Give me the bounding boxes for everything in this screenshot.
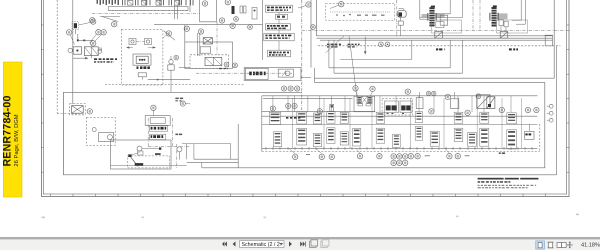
node circle A7: [91, 41, 96, 46]
bank wire drops: [272, 96, 274, 112]
view mode facing icon: [557, 243, 562, 248]
bank upper spool SU4: [327, 112, 335, 123]
dash-dot axis y30: [302, 30, 569, 32]
gauge circle G3: [177, 147, 182, 152]
nav first-page button: [222, 241, 227, 246]
wire from G2: [142, 148, 159, 150]
valve V9 hatch: [249, 72, 252, 76]
tiny label T4b: [175, 98, 178, 100]
bank lower spool SL9: [415, 127, 422, 141]
node circle A10: [233, 63, 238, 68]
callout circles row B: [281, 86, 286, 91]
manifold M1 outline box: [109, 6, 189, 10]
valve stack U1 box 5: [268, 50, 291, 57]
valve stack U1 box 3: [266, 24, 291, 30]
node circle A13: [306, 2, 311, 7]
bank lower spool SL8: [393, 134, 401, 147]
note text block line4: [478, 187, 481, 188]
wire bus H y92: [63, 91, 301, 93]
page inner border right: [566, 0, 568, 195]
dashed enclosure E1: [121, 29, 162, 85]
cylinder CY2: [400, 101, 412, 113]
solid enclosure around E2: [185, 42, 233, 68]
bank upper spool SU2: [297, 112, 307, 124]
nested box bottom y73: [334, 72, 462, 74]
node circle A29: [429, 109, 434, 114]
ports under CV1 CV2: [358, 104, 363, 106]
bank upper spool SU5: [340, 112, 348, 123]
bank outer box top: [262, 95, 538, 97]
node circle A33: [499, 107, 504, 112]
label text row T3: [137, 66, 139, 69]
tank symbol diagonal: [138, 151, 143, 155]
node circle A3: [112, 22, 117, 27]
valve V10: [72, 106, 84, 114]
wire H y67.6: [179, 67, 190, 69]
page gap speck 5: [576, 214, 579, 216]
valve stack connector stems: [278, 12, 280, 14]
dashed enclosure E2: [190, 55, 229, 69]
wire bus top: [154, 24, 263, 26]
page outer border left: [41, 0, 43, 197]
components K6 right of MB: [499, 20, 503, 26]
bank outer box left: [261, 96, 263, 152]
staircase connector: [313, 68, 315, 83]
wire vertical x230: [230, 144, 232, 160]
node circle A40: [180, 101, 185, 106]
bank lower spool SL14: [507, 130, 517, 149]
bank bus H y116: [262, 115, 538, 117]
nested corner lines group2: [512, 19, 521, 21]
valve stack U1 box 1: [266, 5, 293, 12]
bank lower spool SL4: [327, 128, 335, 144]
gauge circle G2: [137, 146, 142, 151]
relief valve RV1 on pipe: [435, 32, 443, 39]
node circle A16b: [166, 31, 171, 36]
motor MA side box: [436, 22, 444, 28]
bank lower spool SL6: [353, 128, 361, 146]
node circle A8: [174, 55, 179, 60]
bank upper spool SU7: [415, 112, 422, 123]
pilot circle on V3: [98, 49, 102, 53]
wire dashed H y84: [105, 84, 244, 86]
port label mark 1: [436, 48, 438, 50]
gauge circle G1: [92, 128, 96, 132]
wire bus H1: [148, 79, 190, 81]
yellow bookmark strip: [3, 62, 22, 197]
wires to motor MA: [420, 16, 430, 18]
page gap speck 1: [42, 217, 46, 219]
dashed inner box E5: [127, 156, 169, 168]
bank bus H y111: [262, 110, 375, 112]
pipe end block: [545, 35, 552, 46]
wire from manifold: [174, 5, 176, 19]
valve V14: [487, 97, 495, 109]
bank dashed bottom: [262, 150, 540, 152]
group outline around MA base: [432, 20, 462, 33]
svg-text:RENR7784-00: RENR7784-00: [2, 95, 14, 166]
tick row inside bank: [286, 117, 288, 119]
dashed cylinder box E7: [382, 98, 412, 115]
relief valve RV2 on pipe: [500, 32, 508, 39]
wire bus H y98: [263, 97, 352, 99]
dashed enclosure E3: [70, 104, 86, 115]
dashed enclosure E4: [87, 117, 116, 145]
wire vertical x238: [237, 124, 239, 168]
diagonal wire: [164, 31, 175, 40]
status bar background: [0, 238, 600, 250]
node circle A18: [219, 18, 224, 23]
node circle A36: [270, 106, 275, 111]
valve assembly box B5: [145, 116, 170, 126]
check valve CV2 hatched: [368, 96, 373, 104]
motor MB dark: [492, 7, 497, 27]
valve V9 body: [245, 68, 268, 79]
bank lower spool SL3: [313, 133, 321, 146]
valve V11: [416, 98, 423, 109]
callout dash marks: [425, 155, 430, 157]
dashed boundary wire corner: [57, 113, 79, 115]
margin circles stack: [549, 104, 553, 108]
bank lower spool SL7: [376, 128, 384, 143]
bank upper spool SU10: [507, 113, 517, 124]
node circle A35: [534, 107, 539, 112]
view mode single-page selected: [536, 241, 545, 249]
nested box risers: [328, 40, 330, 68]
page outer border right: [568, 0, 570, 197]
bank bus H y148 with ticks: [262, 147, 538, 149]
motor MB gray band: [497, 13, 508, 19]
leader from A4: [70, 35, 74, 45]
wire H y168: [202, 167, 545, 169]
second box top y82: [314, 81, 544, 83]
enclosure around check valves: [354, 96, 375, 112]
bank lower spool SL5: [340, 132, 348, 145]
cross link between CV1 CV2: [362, 96, 368, 104]
node circle A21: [225, 0, 230, 5]
wire dashdot vertical center: [301, 0, 303, 111]
dash-dot rail H: [148, 146, 190, 148]
node circle A20: [202, 1, 207, 6]
nav next-page button: [289, 241, 292, 246]
tiny marks under E2: [219, 68, 222, 69]
view mode continuous icon: [548, 242, 552, 248]
valve V6: [205, 57, 222, 65]
node circle A34: [525, 107, 530, 112]
valve stack U1 box 4: [264, 33, 294, 40]
arrows in E1: [126, 46, 129, 48]
svg-text:41.18%: 41.18%: [581, 243, 600, 249]
pipe left riser: [315, 0, 317, 36]
wire H y159: [194, 158, 238, 160]
clipboard tool icon: [321, 241, 328, 247]
component box K3: [99, 133, 114, 142]
callout leader lines: [289, 148, 295, 153]
bank cell vertical dividers: [292, 98, 294, 148]
note text block line2: [478, 181, 481, 183]
wire right trunk: [556, 46, 558, 175]
page outer border bottom: [41, 196, 570, 198]
node circle pair A37 A38: [286, 103, 291, 108]
bank upper spool SU6: [376, 112, 384, 123]
wire H to cluster: [78, 39, 93, 41]
check valve V5 with circle: [169, 60, 173, 64]
component dark block D1: [232, 6, 235, 14]
wire pair vertical: [197, 33, 199, 56]
leader line 2: [349, 36, 357, 97]
frame tick marks sides: [41, 24, 43, 26]
bank lower spool SL10: [430, 131, 439, 146]
valve V12: [451, 99, 459, 109]
bank lower spool SL11: [454, 128, 463, 141]
outer box bottom y78: [314, 77, 554, 79]
nav last-page button: [300, 241, 305, 246]
label text T6: [348, 44, 351, 46]
pump P1: [397, 10, 406, 17]
wire H y162: [187, 162, 239, 164]
bank lower spool SL13: [480, 128, 489, 146]
note text block line3: [478, 185, 480, 186]
arrow wire down: [364, 37, 366, 52]
valve V3: [84, 47, 98, 56]
pilot valve PV2: [145, 39, 152, 45]
valve stack rail left: [262, 0, 264, 60]
snapshot tool icon: [310, 241, 317, 247]
node circle A14: [311, 25, 316, 30]
valve V13: [477, 95, 490, 109]
frame tick marks bottom: [50, 194, 52, 197]
wire step: [201, 163, 203, 168]
dash-dot rail vertical 2: [176, 144, 178, 168]
group outline around MB base: [497, 20, 528, 33]
node circle A17: [198, 29, 203, 34]
main pipe line 1: [316, 35, 552, 37]
bank upper spool SU9: [480, 112, 489, 123]
view mode fit icon: [567, 244, 573, 246]
node circle A2: [91, 19, 96, 24]
dash-dot axis vertical P1: [396, 0, 398, 37]
node circle A30: [445, 94, 450, 99]
component K5: [440, 15, 447, 25]
node circle A1: [90, 18, 95, 23]
callout circle row singles: [293, 154, 298, 159]
bank end component K7: [525, 131, 534, 139]
page inner border bottom: [43, 193, 567, 195]
main pipe line 2: [316, 37, 552, 39]
valve V7: [203, 38, 212, 44]
bank lower spool SL12: [468, 133, 477, 147]
node circle A22: [87, 109, 92, 114]
node circle A23: [151, 105, 156, 110]
svg-text:Schematic (2 / 2:: Schematic (2 / 2:: [242, 242, 282, 248]
callout circle cluster 2x3: [391, 154, 396, 159]
bank lower spool SL2: [297, 128, 307, 145]
label text block T2: [94, 61, 96, 63]
page gap speck 3: [264, 217, 267, 219]
second box right edge: [544, 82, 546, 167]
note text block line1: [478, 178, 504, 180]
port label mark 2: [509, 48, 512, 50]
pump enclosure box B6: [111, 140, 172, 169]
nested box bottom y59: [340, 58, 412, 60]
manifold dash-dot line: [92, 13, 200, 15]
page gap speck 4: [456, 216, 459, 218]
nav prev-page button: [233, 241, 236, 246]
wire trunk left: [72, 0, 74, 104]
valve V1: [72, 22, 79, 30]
status bar top border: [0, 237, 600, 239]
wire vertical x311: [310, 0, 312, 68]
enclosure box B3outer: [244, 68, 301, 81]
node circle A25: [370, 86, 375, 91]
node circle A31: [465, 110, 470, 115]
dash-dot rails S1: [147, 118, 149, 147]
dash-dot verticals right group: [472, 0, 474, 31]
page inner border left: [43, 0, 45, 195]
component K1 below B1: [138, 73, 146, 77]
bank lower spool SL1: [273, 132, 281, 147]
dashed pilot box E6: [326, 3, 395, 20]
dashed boundary wire vertical: [56, 0, 58, 114]
nested corner lines group1: [430, 13, 450, 15]
node circle A4: [67, 30, 72, 35]
node circle A12: [248, 25, 253, 30]
component D3: [252, 8, 257, 20]
component K2 with circle: [278, 69, 293, 77]
outer box right edge: [553, 0, 555, 78]
bank dashed right: [539, 124, 541, 151]
node circle A26: [405, 89, 410, 94]
junction node on wire: [77, 39, 79, 41]
node circle A11: [234, 17, 239, 22]
inner frame vertical: [62, 92, 64, 175]
node circle A24: [353, 86, 358, 91]
dash-dot link between pilots: [136, 41, 145, 43]
bank upper spool SU1: [269, 112, 280, 124]
nested box bottom y67: [329, 67, 450, 69]
manifold M1 body: [97, 0, 99, 4]
marks under cylinders: [387, 113, 389, 114]
node circle A32: [476, 94, 481, 99]
wire verticals right of pump box: [186, 144, 188, 159]
page combo box: [240, 241, 285, 248]
node circle A19: [230, 23, 235, 28]
pilot valve PV1: [129, 39, 136, 45]
stack S1 row2: [151, 135, 153, 138]
node circle A39: [317, 109, 322, 114]
tiny label T4: [175, 134, 178, 136]
cylinder CY1: [385, 101, 399, 113]
motor MA dark: [429, 7, 434, 26]
valve V8: [200, 47, 210, 53]
accumulator ACC1: [330, 104, 334, 111]
dashed pilot inner row: [330, 11, 390, 13]
main pipe line 3: [320, 39, 552, 41]
wire H y165 left: [111, 165, 187, 167]
node circle pair A27 A28: [426, 91, 430, 95]
component small rect K4: [155, 153, 161, 155]
leader line 1: [326, 36, 344, 53]
inner frame bottom: [63, 174, 556, 176]
label text T5: [327, 44, 330, 46]
manifold drop wire: [102, 17, 118, 22]
node circle A16: [184, 26, 189, 31]
manifold nested corner: [189, 0, 191, 12]
valve stack U1 box 2: [276, 14, 288, 19]
svg-text:26 Page, B/W, DGM: 26 Page, B/W, DGM: [14, 114, 20, 166]
wire H right of B3: [301, 77, 311, 79]
check valve CV1 hatched: [357, 96, 362, 104]
valve V2: [73, 47, 81, 54]
dash-dot axis through V9: [196, 72, 292, 74]
node circle A9: [224, 62, 229, 67]
motor MA gray band: [422, 14, 445, 18]
node circle pair A5 A6: [96, 30, 101, 35]
tiny label under bank: [499, 152, 501, 154]
dash-dot rail x217: [216, 22, 218, 55]
manifold dashed line: [109, 9, 189, 11]
quick coupler circles QC1 QC2: [379, 42, 384, 47]
valve V4 box B1: [133, 54, 151, 65]
component thin rect D2: [240, 6, 243, 13]
dashed return line y45: [318, 45, 560, 47]
bank cell divider line: [262, 124, 538, 126]
wire branch with arrow: [73, 57, 85, 59]
node circle A15: [339, 1, 344, 6]
bank upper spool SU3: [313, 113, 321, 124]
wire H y143: [182, 143, 231, 145]
stack S1 row1: [151, 127, 153, 130]
page gap speck 2: [142, 217, 145, 219]
bank upper spool SU8: [454, 112, 463, 123]
label text block T1: [94, 58, 97, 60]
